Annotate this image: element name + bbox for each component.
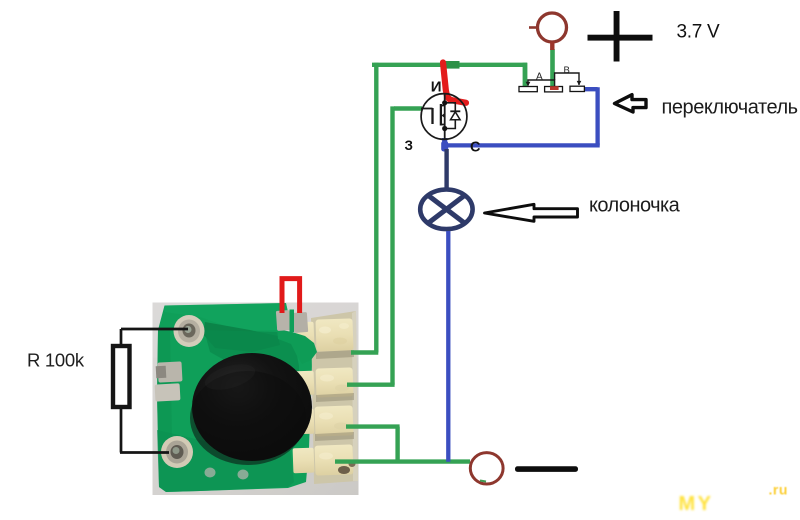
- switch bracket B: [555, 73, 582, 85]
- PCB left edge pads: [155, 361, 183, 401]
- green tab over connector (top): [277, 329, 317, 364]
- svg-text:переключатель: переключатель: [662, 97, 798, 119]
- speaker symbol (lamp circle with X): [420, 190, 472, 230]
- watermark MY: [679, 493, 714, 515]
- minus symbol: [515, 466, 578, 472]
- svg-text:R 100k: R 100k: [27, 350, 85, 371]
- Q1 gate bar: [431, 108, 433, 124]
- label B: [564, 65, 570, 76]
- switch pad A (left): [519, 87, 537, 92]
- svg-text:С: С: [470, 140, 481, 156]
- node: rail junction (red taps here): [446, 61, 460, 69]
- battery plus terminal circle: [529, 13, 567, 50]
- wire: green switch drop (rail to pad A): [523, 63, 528, 87]
- wire: red pulse loop on PCB: [282, 279, 300, 313]
- wire: green bottom run to minus terminal: [335, 459, 470, 463]
- svg-text:3.7 V: 3.7 V: [677, 22, 720, 43]
- wire: green battery drop to switch: [550, 49, 555, 88]
- Q1 junction dots: [442, 100, 447, 131]
- castellated gold pad 1: [296, 318, 354, 359]
- connector substrate (beige strip right side): [311, 311, 358, 484]
- svg-text:A: A: [536, 72, 543, 83]
- label С (drain): [470, 140, 481, 156]
- wire: navy down to speaker: [444, 149, 448, 189]
- plus symbol: [588, 11, 653, 62]
- wire: green top rail: [372, 63, 527, 67]
- PCB module photo background: [153, 303, 359, 496]
- svg-text:И: И: [431, 79, 442, 96]
- battery minus terminal circle: [470, 453, 503, 484]
- arrow to speaker: [485, 204, 578, 221]
- resistor R1 wiring bottom: [120, 407, 169, 453]
- Q1 channel stubs + body connector: [441, 103, 445, 129]
- Q1 gate lead: [421, 108, 433, 110]
- wire: green stub to PCB pad 1: [351, 350, 378, 354]
- wire: green stub to PCB pad 2: [347, 383, 395, 387]
- castellated gold pad 4: [293, 444, 356, 475]
- label И (source): [431, 79, 442, 96]
- small vias bottom: [205, 468, 249, 480]
- switch pad common (middle): [545, 87, 563, 92]
- switch red mark on middle pad: [550, 86, 559, 90]
- resistor R1 body: [113, 346, 130, 407]
- switch pad B (right): [570, 86, 584, 91]
- svg-text:B: B: [564, 65, 570, 76]
- transistor Q1 (MOSFET, circle): [421, 94, 467, 140]
- label 3.7 V: [677, 22, 720, 43]
- screw hole top-left: [174, 315, 205, 347]
- svg-text:MY: MY: [679, 493, 714, 515]
- wire: green source riser (rail down to PCB pad 1): [374, 63, 378, 353]
- epoxy blob chip: [190, 353, 312, 465]
- svg-text:З: З: [405, 138, 413, 153]
- wire: blue MOSFET drain drop + junction: [441, 138, 448, 152]
- label переключатель: [662, 97, 798, 119]
- castellated gold pad 2: [295, 367, 354, 402]
- Q1 drain/source verticals to terminals: [444, 93, 446, 140]
- arrow to switch: [615, 95, 647, 112]
- PCB board (green): [157, 303, 321, 492]
- wire: blue speaker to minus rail: [446, 231, 450, 462]
- svg-text:колоночка: колоночка: [589, 195, 681, 217]
- label колоночка: [589, 195, 681, 217]
- svg-text:.ru: .ru: [769, 482, 788, 498]
- screw hole bottom-left: [161, 436, 193, 468]
- wire: green gate horizontal into MOSFET: [394, 106, 422, 110]
- label R 100k: [27, 350, 85, 371]
- castellated gold pad 3: [294, 405, 354, 441]
- resistor R1 wiring top: [121, 329, 188, 346]
- wire: green gate riser: [390, 106, 394, 384]
- Q1 body diode: [445, 103, 461, 129]
- wire: green from PCB pad 3: [346, 427, 400, 462]
- switch bracket A: [526, 80, 555, 86]
- wire: blue switch C to pad B: [583, 87, 598, 145]
- Q1 channel bar: [440, 104, 442, 126]
- watermark .ru: [769, 482, 788, 498]
- PCB top pads (red wire lands here): [276, 310, 308, 334]
- wire: blue drain run to MOSFET: [445, 143, 600, 147]
- label З (gate): [405, 138, 413, 153]
- wire: red jumper rail to MOSFET source: [443, 63, 466, 103]
- label A: [536, 72, 543, 83]
- Q1 body arrow: [442, 113, 446, 119]
